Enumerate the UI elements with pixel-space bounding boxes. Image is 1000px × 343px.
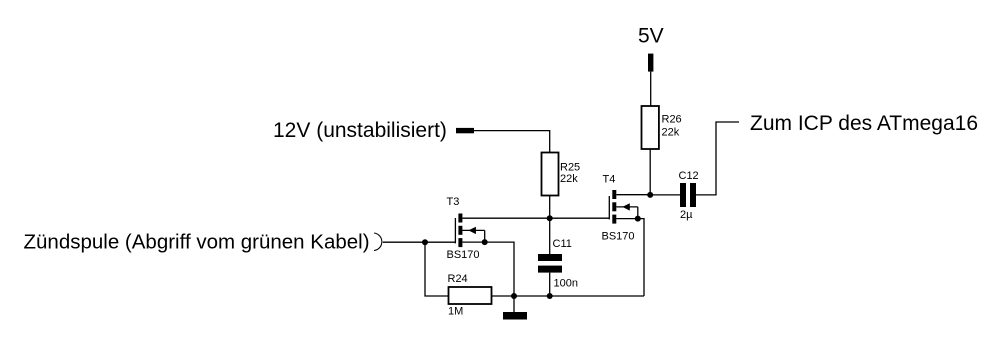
node rail ground junction [511,293,517,299]
svg-text:Zündspule (Abgriff vom grünen: Zündspule (Abgriff vom grünen Kabel) [24,230,370,253]
wire T4 source to rail [616,219,644,296]
svg-text:2µ: 2µ [680,209,693,221]
svg-text:22k: 22k [560,173,578,185]
wire R26 to drain node [649,149,651,195]
12V supply label [273,119,447,142]
R24 value label 1M [448,306,463,318]
svg-text:22k: 22k [662,127,680,139]
node C11 rail junction [547,293,553,299]
svg-text:BS170: BS170 [602,230,635,242]
wire input node down to R24 [425,242,449,296]
wire R24 to ground node [492,295,515,297]
T3 source junction dot [482,239,488,245]
svg-text:T3: T3 [447,196,460,208]
wire 5V bar to R26 [650,72,652,106]
C11 designator label [553,238,572,250]
wire T3 drain to node A [462,217,549,219]
svg-text:R26: R26 [662,113,682,125]
svg-text:C11: C11 [553,238,572,250]
resistor R25 [542,153,559,196]
wire T4 drain to node [616,194,650,196]
wire C11 to ground rail [549,273,551,296]
svg-text:R24: R24 [448,273,468,285]
T3 type label BS170 [447,249,480,261]
resistor R26 [642,106,659,149]
ground symbol [503,296,527,320]
svg-text:1M: 1M [448,306,463,318]
R26 value label 22k [662,127,680,139]
capacitor C11 [538,254,562,273]
R25 designator label [560,162,580,174]
C12 value label 2µ [680,209,693,221]
transistor T4 [609,190,638,224]
wire T3 source to rail [462,242,514,296]
R25 value label 22k [560,173,578,185]
wire ground rail [514,295,550,297]
T3 designator label [447,196,460,208]
wire R25 to node A [549,196,551,219]
capacitor C12 [680,183,696,207]
wire node A to C11 [549,218,551,254]
svg-text:Zum ICP des ATmega16: Zum ICP des ATmega16 [750,112,978,135]
svg-text:C12: C12 [679,170,699,182]
12V supply terminal bar [456,128,474,133]
svg-text:T4: T4 [603,173,616,185]
wire C12 to output corner [696,122,739,195]
input connector arc [374,233,382,251]
node A junction [547,215,553,221]
T4 source junction dot [635,216,641,222]
wire node to C12 [650,194,680,196]
node T4 drain junction [647,192,653,198]
C11 value label 100n [554,278,578,290]
wire rail to T4 source corner [550,295,644,297]
svg-text:R25: R25 [560,162,580,174]
T4 designator label [603,173,616,185]
svg-text:12V (unstabilisiert): 12V (unstabilisiert) [273,119,447,142]
5V supply label [638,25,664,48]
wire input to T3 gate [383,241,456,243]
R24 designator label [448,273,468,285]
C12 designator label [679,170,699,182]
transistor T3 [455,214,484,248]
svg-text:BS170: BS170 [447,249,480,261]
input label Zündspule [24,230,370,253]
node input junction [422,239,428,245]
output label Zum ICP des ATmega16 [750,112,978,135]
svg-text:100n: 100n [554,278,578,290]
wire 12V bar to R25 [474,131,550,153]
wire node A to T4 gate [550,217,610,219]
R26 designator label [662,113,682,125]
svg-text:5V: 5V [638,25,664,48]
resistor R24 [449,287,492,304]
5V supply terminal bar [648,54,653,72]
T4 type label BS170 [602,230,635,242]
